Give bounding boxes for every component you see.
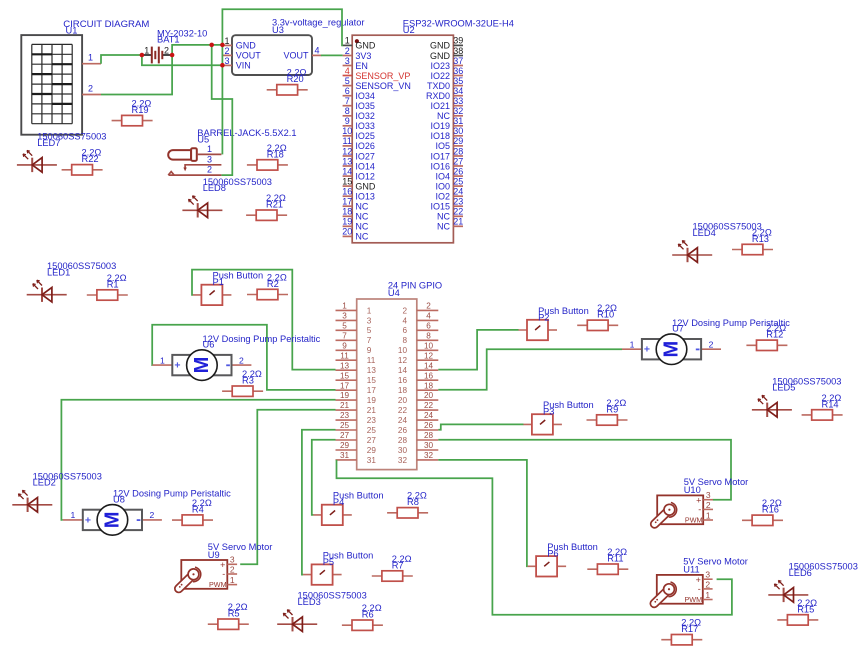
svg-text:R11: R11	[607, 554, 623, 564]
svg-text:21: 21	[340, 401, 350, 410]
svg-text:R20: R20	[287, 74, 304, 84]
svg-text:U4: U4	[388, 288, 400, 298]
svg-text:GND: GND	[236, 41, 256, 51]
svg-text:16: 16	[398, 376, 408, 385]
svg-text:IO18: IO18	[430, 131, 450, 141]
svg-text:U3: U3	[272, 25, 284, 35]
svg-text:IO33: IO33	[355, 121, 375, 131]
svg-text:U2: U2	[403, 25, 415, 35]
svg-text:39: 39	[453, 36, 463, 46]
svg-text:SENSOR_VP: SENSOR_VP	[355, 71, 410, 81]
svg-text:6: 6	[426, 321, 431, 330]
svg-text:29: 29	[367, 446, 377, 455]
svg-text:LED5: LED5	[772, 383, 795, 393]
svg-text:LED3: LED3	[298, 597, 321, 607]
svg-text:IO21: IO21	[430, 101, 450, 111]
svg-text:3V3: 3V3	[355, 51, 371, 61]
LED LED3	[277, 591, 367, 632]
U5 pin 3	[185, 165, 221, 168]
wire battery pin1 down to VIN rail	[142, 55, 223, 65]
wire junction down to barrel jack pin2	[212, 45, 233, 175]
svg-text:1: 1	[160, 355, 165, 365]
svg-text:14: 14	[342, 166, 352, 176]
svg-text:36: 36	[453, 66, 463, 76]
resistor R14	[802, 393, 843, 420]
dosing pump U8	[63, 489, 231, 536]
svg-text:IO22: IO22	[430, 71, 450, 81]
svg-text:3: 3	[705, 570, 710, 580]
svg-text:3: 3	[224, 56, 229, 66]
push button P1	[193, 271, 263, 305]
wire U4 pin31 to U11 pin3	[337, 460, 732, 615]
svg-text:NC: NC	[355, 212, 368, 222]
svg-text:7: 7	[342, 331, 347, 340]
svg-text:IO17: IO17	[430, 151, 450, 161]
voltage regulator U3	[223, 18, 365, 75]
svg-text:P5: P5	[323, 557, 334, 567]
svg-text:20: 20	[398, 396, 408, 405]
svg-text:15: 15	[340, 371, 350, 380]
push button P6	[528, 542, 598, 576]
svg-text:IO25: IO25	[355, 131, 375, 141]
svg-text:12V Dosing Pump Peristaltic: 12V Dosing Pump Peristaltic	[113, 489, 231, 499]
svg-text:PWM: PWM	[685, 515, 703, 524]
svg-text:8: 8	[426, 331, 431, 340]
svg-text:9: 9	[345, 116, 350, 126]
svg-text:8: 8	[345, 106, 350, 116]
resistor R4	[172, 498, 213, 525]
svg-text:1: 1	[705, 590, 710, 600]
svg-text:PWM: PWM	[685, 595, 703, 604]
svg-text:13: 13	[367, 366, 377, 375]
resistor R11	[587, 547, 628, 574]
resistor R7	[372, 554, 413, 581]
svg-text:M: M	[101, 512, 123, 529]
svg-text:20: 20	[424, 391, 434, 400]
svg-text:3: 3	[342, 312, 347, 321]
svg-text:17: 17	[367, 386, 377, 395]
svg-text:29: 29	[453, 136, 463, 146]
LED LED7	[17, 131, 107, 172]
svg-text:U9: U9	[208, 550, 220, 560]
svg-text:R10: R10	[597, 310, 614, 320]
svg-text:LED8: LED8	[203, 183, 226, 193]
svg-text:26: 26	[424, 421, 434, 430]
junction U3 VIN pin	[220, 63, 225, 68]
wire U4 pin27 to P4	[312, 440, 336, 515]
svg-text:23: 23	[367, 416, 377, 425]
svg-text:IO2: IO2	[435, 192, 450, 202]
svg-text:3.3v-voltage_regulator: 3.3v-voltage_regulator	[272, 18, 365, 28]
svg-text:IO5: IO5	[435, 141, 450, 151]
wire P1 to U4 pin13	[192, 270, 336, 370]
svg-text:3: 3	[207, 155, 212, 165]
resistor R15	[777, 598, 818, 625]
wire U4 pin25 to P5	[302, 430, 336, 575]
ESP32 module U2	[342, 19, 514, 243]
junction battery pin1	[140, 53, 145, 58]
svg-text:2: 2	[402, 306, 407, 315]
resistor R20	[267, 68, 308, 95]
svg-text:+: +	[85, 514, 91, 526]
svg-text:19: 19	[340, 391, 350, 400]
barrel jack U5	[168, 128, 296, 175]
svg-text:30: 30	[398, 446, 408, 455]
svg-text:1: 1	[367, 306, 372, 315]
svg-text:U7: U7	[672, 324, 684, 334]
svg-text:BARREL-JACK-5.5X2.1: BARREL-JACK-5.5X2.1	[197, 128, 296, 138]
svg-text:NC: NC	[355, 202, 368, 212]
svg-text:2: 2	[705, 579, 710, 589]
svg-text:R19: R19	[132, 105, 149, 115]
svg-text:32: 32	[424, 451, 434, 460]
wire U3 VOUT to ESP32 3V3	[321, 54, 343, 56]
svg-text:IO13: IO13	[355, 192, 375, 202]
svg-text:25: 25	[340, 421, 350, 430]
svg-text:2: 2	[345, 46, 350, 56]
svg-text:15: 15	[342, 176, 352, 186]
svg-text:SENSOR_VN: SENSOR_VN	[355, 81, 411, 91]
svg-text:21: 21	[367, 406, 377, 415]
resistor R10	[577, 303, 618, 330]
svg-text:R12: R12	[766, 330, 783, 340]
svg-text:3: 3	[345, 56, 350, 66]
24 PIN GPIO header U4	[336, 281, 443, 470]
svg-text:28: 28	[424, 431, 434, 440]
U5 pin 2	[168, 172, 174, 176]
svg-text:2: 2	[207, 165, 212, 175]
U1 pin 2	[82, 94, 101, 96]
svg-text:IO23: IO23	[430, 61, 450, 71]
svg-text:10: 10	[424, 341, 434, 350]
svg-text:1: 1	[144, 45, 149, 55]
svg-text:11: 11	[343, 136, 352, 146]
svg-text:28: 28	[453, 146, 463, 156]
svg-text:1: 1	[345, 36, 350, 46]
svg-text:1: 1	[230, 575, 235, 585]
svg-text:-: -	[222, 569, 225, 579]
svg-text:4: 4	[345, 66, 350, 76]
svg-text:U11: U11	[683, 565, 699, 575]
svg-text:M: M	[661, 341, 683, 358]
svg-text:6: 6	[402, 326, 407, 335]
svg-text:13: 13	[340, 361, 350, 370]
svg-text:4: 4	[314, 45, 319, 55]
svg-text:GND: GND	[355, 181, 376, 191]
resistor R2	[247, 272, 288, 299]
svg-text:P6: P6	[547, 549, 558, 559]
svg-text:P1: P1	[213, 277, 224, 287]
U1 pin 1	[82, 63, 101, 65]
wire U4 pin28 to U10 pin3	[438, 440, 731, 500]
svg-text:24: 24	[424, 411, 434, 420]
svg-text:22: 22	[424, 401, 434, 410]
svg-text:1: 1	[207, 144, 212, 154]
svg-text:1: 1	[224, 36, 229, 46]
wire battery pin2 up to GND rail	[172, 45, 222, 55]
svg-text:4: 4	[402, 316, 407, 325]
svg-text:15: 15	[367, 376, 377, 385]
svg-text:2: 2	[706, 500, 711, 510]
push button P3	[523, 400, 593, 434]
svg-text:GND: GND	[430, 41, 451, 51]
svg-text:5: 5	[345, 76, 350, 86]
svg-text:R22: R22	[82, 154, 99, 164]
svg-text:2: 2	[164, 45, 169, 55]
svg-text:5: 5	[367, 326, 372, 335]
svg-text:7: 7	[345, 96, 350, 106]
svg-text:NC: NC	[355, 232, 368, 242]
svg-text:20: 20	[342, 227, 352, 237]
svg-text:18: 18	[398, 386, 408, 395]
svg-text:12: 12	[424, 351, 434, 360]
svg-text:IO27: IO27	[355, 151, 375, 161]
resistor R21	[246, 193, 287, 220]
svg-text:11: 11	[367, 356, 376, 365]
svg-text:6: 6	[345, 86, 350, 96]
svg-text:R3: R3	[242, 376, 254, 386]
svg-text:ESP32-WROOM-32UE-H4: ESP32-WROOM-32UE-H4	[403, 19, 514, 29]
svg-text:TXD0: TXD0	[427, 81, 450, 91]
wire GND rail top loop to ESP32 pin1	[222, 9, 343, 45]
svg-text:VIN: VIN	[236, 61, 251, 71]
svg-text:2: 2	[709, 339, 714, 349]
resistor R22	[62, 148, 103, 175]
svg-text:12V Dosing Pump Peristaltic: 12V Dosing Pump Peristaltic	[672, 318, 790, 328]
svg-text:10: 10	[398, 346, 408, 355]
svg-text:32: 32	[453, 106, 463, 116]
resistor R12	[746, 323, 787, 350]
svg-text:U1: U1	[66, 26, 78, 36]
svg-text:LED2: LED2	[33, 478, 56, 488]
svg-text:14: 14	[424, 361, 434, 370]
U3 pin 4 VOUT	[312, 54, 322, 56]
LED LED1	[27, 261, 117, 302]
battery BAT1 MY-2032-10	[142, 28, 207, 63]
wire U1 pin1 to battery pin1	[101, 55, 142, 64]
svg-text:R1: R1	[107, 279, 119, 289]
svg-text:-: -	[698, 584, 701, 594]
svg-text:3: 3	[367, 316, 372, 325]
svg-text:IO26: IO26	[355, 141, 375, 151]
svg-text:14: 14	[398, 366, 408, 375]
LED LED6	[768, 561, 858, 602]
svg-text:9: 9	[342, 341, 347, 350]
svg-text:NC: NC	[437, 111, 450, 121]
junction battery pin2	[170, 53, 175, 58]
resistor R6	[342, 603, 383, 630]
svg-text:3: 3	[706, 490, 711, 500]
svg-text:R15: R15	[797, 604, 814, 614]
svg-text:IO15: IO15	[430, 202, 450, 212]
svg-text:U6: U6	[203, 340, 215, 350]
junction GND rail	[209, 43, 214, 48]
svg-text:+: +	[174, 360, 180, 372]
svg-text:17: 17	[342, 197, 352, 207]
svg-text:2: 2	[224, 46, 229, 56]
svg-text:11: 11	[340, 351, 349, 360]
wire U4 pin21 to U9 pin3	[240, 410, 335, 565]
wire U4 pin32 to P6	[438, 460, 527, 566]
svg-text:1: 1	[342, 302, 347, 311]
svg-text:8: 8	[402, 336, 407, 345]
svg-text:R9: R9	[606, 404, 618, 414]
svg-text:RXD0: RXD0	[426, 91, 450, 101]
LED LED5	[752, 376, 842, 417]
svg-text:22: 22	[453, 207, 463, 217]
svg-text:R2: R2	[267, 279, 279, 289]
svg-text:1: 1	[706, 510, 711, 520]
svg-text:IO16: IO16	[430, 161, 450, 171]
svg-text:R16: R16	[762, 505, 779, 515]
resistor R16	[742, 498, 783, 525]
svg-text:GND: GND	[430, 51, 451, 61]
servo motor U11	[654, 557, 748, 604]
svg-text:1: 1	[71, 510, 76, 520]
U5 pin 1	[197, 153, 222, 155]
resistor R18	[247, 143, 288, 170]
svg-text:35: 35	[453, 76, 463, 86]
svg-text:P3: P3	[543, 407, 554, 417]
svg-text:25: 25	[367, 426, 377, 435]
svg-text:P2: P2	[538, 312, 549, 322]
svg-text:30: 30	[424, 441, 434, 450]
svg-text:NC: NC	[437, 222, 450, 232]
svg-text:12: 12	[398, 356, 408, 365]
svg-text:23: 23	[453, 197, 463, 207]
resistor R19	[112, 99, 153, 126]
svg-text:27: 27	[367, 436, 377, 445]
svg-text:R13: R13	[752, 234, 769, 244]
svg-text:32: 32	[398, 456, 408, 465]
svg-text:9: 9	[367, 346, 372, 355]
svg-text:1: 1	[88, 53, 93, 63]
resistor R3	[222, 369, 263, 396]
resistor R1	[87, 273, 128, 300]
svg-text:GND: GND	[355, 41, 376, 51]
svg-text:1: 1	[630, 339, 635, 349]
svg-text:R7: R7	[392, 560, 404, 570]
resistor R9	[587, 398, 628, 425]
svg-text:34: 34	[453, 86, 463, 96]
svg-text:+: +	[644, 344, 650, 356]
wire U1 pin2 to battery pin2	[101, 55, 172, 95]
wire U4 pin18 to U7 pin1	[438, 349, 622, 390]
junction U3 GND pin	[220, 43, 225, 48]
svg-text:23: 23	[340, 411, 350, 420]
svg-text:R5: R5	[228, 609, 240, 619]
svg-text:EN: EN	[355, 61, 368, 71]
svg-text:VOUT: VOUT	[236, 51, 262, 61]
resistor R13	[732, 227, 773, 254]
svg-text:2: 2	[88, 83, 93, 93]
dosing pump U7	[622, 318, 790, 365]
svg-text:P4: P4	[333, 497, 344, 507]
svg-text:33: 33	[453, 96, 463, 106]
svg-text:27: 27	[340, 431, 350, 440]
LED LED4	[672, 222, 762, 263]
svg-text:IO4: IO4	[435, 171, 450, 181]
svg-text:18: 18	[424, 381, 434, 390]
resistor R5	[208, 602, 249, 629]
push button P5	[303, 550, 373, 584]
LED matrix display U1	[21, 26, 82, 135]
svg-text:IO19: IO19	[430, 121, 450, 131]
svg-text:16: 16	[424, 371, 434, 380]
svg-text:25: 25	[453, 176, 463, 186]
push button P2	[519, 306, 589, 340]
push button P4	[313, 491, 383, 525]
svg-text:19: 19	[367, 396, 377, 405]
svg-text:R6: R6	[362, 610, 374, 620]
svg-text:31: 31	[453, 116, 463, 126]
svg-text:7: 7	[367, 336, 372, 345]
svg-text:IO12: IO12	[355, 171, 375, 181]
svg-text:U5: U5	[197, 134, 209, 144]
svg-text:19: 19	[342, 217, 352, 227]
servo motor U9	[179, 542, 273, 589]
svg-text:-: -	[698, 504, 701, 514]
svg-text:26: 26	[453, 166, 463, 176]
svg-text:30: 30	[453, 126, 463, 136]
LED LED2	[12, 471, 102, 512]
resistor R8	[387, 491, 428, 518]
dosing pump U6	[152, 334, 320, 381]
svg-text:5: 5	[342, 321, 347, 330]
servo motor U10	[655, 477, 749, 524]
svg-text:29: 29	[340, 441, 350, 450]
svg-text:PWM: PWM	[209, 580, 227, 589]
svg-text:R17: R17	[681, 624, 698, 634]
svg-text:22: 22	[398, 406, 408, 415]
svg-text:24: 24	[398, 416, 408, 425]
wire U4 pin14 to P2	[438, 330, 518, 370]
svg-text:IO35: IO35	[355, 101, 375, 111]
svg-text:24: 24	[453, 187, 463, 197]
svg-text:2: 2	[239, 355, 244, 365]
svg-text:NC: NC	[355, 222, 368, 232]
svg-text:LED6: LED6	[789, 568, 812, 578]
svg-text:2: 2	[426, 302, 431, 311]
svg-text:17: 17	[340, 381, 350, 390]
svg-text:R21: R21	[266, 200, 283, 210]
resistor R17	[661, 618, 702, 645]
svg-text:VOUT: VOUT	[283, 51, 309, 61]
svg-text:M: M	[191, 357, 213, 374]
wire U4 pin26 to P3	[438, 424, 523, 429]
svg-text:LED1: LED1	[47, 268, 70, 278]
svg-text:3: 3	[230, 555, 235, 565]
LED LED8	[182, 177, 272, 218]
svg-text:NC: NC	[437, 212, 450, 222]
svg-text:10: 10	[342, 126, 352, 136]
svg-text:27: 27	[453, 156, 463, 166]
svg-text:R14: R14	[822, 399, 839, 409]
svg-text:2: 2	[230, 564, 235, 574]
svg-text:12: 12	[342, 146, 352, 156]
svg-text:LED7: LED7	[37, 138, 60, 148]
svg-text:4: 4	[426, 312, 431, 321]
svg-text:31: 31	[367, 456, 377, 465]
svg-text:R8: R8	[407, 497, 419, 507]
svg-text:R4: R4	[192, 505, 204, 515]
svg-text:IO14: IO14	[355, 161, 375, 171]
wire U6 pin1 to U4 pin17	[152, 325, 335, 390]
svg-text:12V Dosing Pump Peristaltic: 12V Dosing Pump Peristaltic	[203, 334, 321, 344]
svg-text:31: 31	[340, 451, 350, 460]
svg-text:18: 18	[342, 207, 352, 217]
svg-text:38: 38	[453, 46, 463, 56]
